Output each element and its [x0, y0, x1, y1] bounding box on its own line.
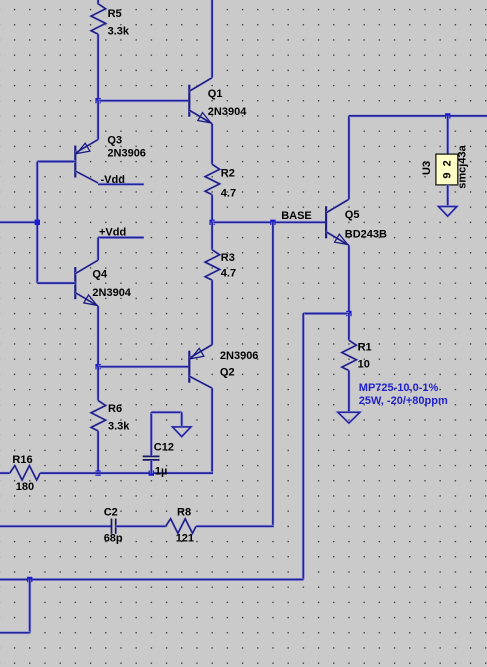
wire bottom left drop — [28, 580, 31, 633]
node junction Q4 emitter / R6 / Q2 base — [95, 364, 100, 369]
node junction left input — [35, 220, 40, 225]
capacitor C12 — [143, 456, 160, 460]
wire node to Q2 base — [98, 365, 189, 368]
wire Q3 emitter lead — [97, 101, 100, 140]
node junction C12 bottom — [149, 470, 154, 475]
wire R1 top lead — [347, 314, 350, 341]
wire U3 bottom lead — [446, 185, 449, 207]
node junction BASE tap — [270, 220, 275, 225]
svg-text:4.7: 4.7 — [221, 267, 236, 279]
wire Q1 emitter to R2 — [211, 124, 214, 165]
wire C12 bend horizontal — [151, 411, 181, 414]
svg-text:3.3k: 3.3k — [108, 26, 130, 38]
svg-text:+Vdd: +Vdd — [99, 227, 126, 239]
resistor R6 — [91, 401, 106, 431]
resistor R5 — [91, 4, 106, 34]
wire top rail to right edge — [349, 114, 487, 117]
svg-text:4.7: 4.7 — [221, 187, 236, 199]
ground arrow at U3 — [439, 207, 457, 217]
resistor R16 — [10, 466, 40, 481]
wire R6 top lead — [97, 367, 100, 401]
wire C12 top lead — [150, 412, 153, 456]
wire C12 arrow stem — [180, 412, 183, 427]
wire Q5 emitter down — [347, 245, 350, 313]
wire Q4 base — [37, 282, 75, 285]
svg-text:25W, -20/+80ppm: 25W, -20/+80ppm — [359, 395, 448, 407]
svg-text:2N3904: 2N3904 — [92, 287, 131, 299]
svg-text:BASE: BASE — [281, 210, 312, 222]
wire Q4 emitter to node — [97, 306, 100, 367]
ground arrow at C12 — [173, 427, 191, 437]
transistor Q5 BD243B — [326, 199, 349, 245]
wire R3 bottom to Q2 emitter — [211, 280, 214, 345]
net flag +Vdd bar — [98, 236, 144, 239]
wire R8 to BASE vertical — [196, 525, 274, 528]
wire R2 bottom to BASE node — [211, 195, 214, 223]
svg-text:3.3k: 3.3k — [108, 421, 130, 433]
net flag -Vdd bar — [98, 183, 144, 186]
wire Q2 collector down — [211, 388, 214, 473]
wire node to Q1 base — [98, 99, 189, 102]
transistor Q2 2N3906 — [189, 345, 212, 389]
transistor Q4 2N3904 — [75, 260, 98, 306]
resistor R3 — [205, 250, 220, 280]
resistor R1 — [342, 340, 357, 370]
wire left input — [0, 221, 37, 224]
svg-text:MP725-10,0-1%: MP725-10,0-1% — [359, 382, 439, 394]
node junction U3 tap — [445, 113, 450, 118]
svg-text:2N3906: 2N3906 — [107, 147, 146, 159]
wire bottom-left lead to R16 — [0, 472, 10, 475]
svg-text:BD243B: BD243B — [345, 228, 387, 240]
wire BASE vertical down — [271, 222, 274, 526]
ground arrow at R1 — [338, 412, 360, 423]
wire C2 to R8 — [116, 525, 166, 528]
svg-text:1µ: 1µ — [155, 466, 167, 478]
wire R3 top lead — [211, 222, 214, 250]
wire Q3 base — [37, 160, 75, 163]
resistor R2 — [205, 164, 220, 194]
svg-text:68p: 68p — [104, 532, 123, 544]
svg-text:R1: R1 — [358, 341, 372, 353]
svg-text:R2: R2 — [221, 167, 235, 179]
wire R5 top lead — [97, 0, 100, 4]
wire R1 bottom lead — [347, 371, 350, 413]
svg-text:180: 180 — [16, 481, 34, 493]
wire bottom horizontal — [0, 578, 303, 581]
svg-text:R3: R3 — [221, 252, 235, 264]
transistor Q3 2N3906 — [75, 140, 98, 184]
wire R5 bottom to node — [97, 34, 100, 101]
svg-text:Q1: Q1 — [208, 88, 223, 100]
transistor Q1 2N3904 — [189, 78, 212, 124]
node junction bottom left — [27, 577, 32, 582]
svg-text:R16: R16 — [12, 454, 32, 466]
wire emitter node left — [303, 312, 349, 315]
svg-text:Q2: Q2 — [220, 367, 235, 379]
svg-text:U3: U3 — [421, 161, 433, 175]
svg-text:C12: C12 — [154, 442, 174, 454]
svg-text:R8: R8 — [177, 506, 191, 518]
resistor R8 — [166, 519, 196, 534]
svg-text:smcj43a: smcj43a — [457, 144, 469, 188]
wire R16 to Q2 collector corner — [40, 472, 213, 475]
svg-text:R5: R5 — [108, 8, 122, 20]
svg-text:Q5: Q5 — [345, 209, 360, 221]
node junction R5 / Q1 base / Q3 emitter — [95, 98, 100, 103]
svg-text:Q4: Q4 — [92, 269, 108, 281]
wire C12 bottom lead — [150, 460, 153, 473]
svg-text:-Vdd: -Vdd — [101, 174, 125, 186]
node junction R6 bottom — [95, 470, 100, 475]
node junction R2 / R3 / BASE — [209, 220, 214, 225]
wire Q1 collector up — [211, 0, 214, 78]
wire long vertical x303 — [302, 314, 305, 580]
svg-text:10: 10 — [358, 359, 370, 371]
svg-text:2N3906: 2N3906 — [220, 350, 259, 362]
node junction Q5 emitter / R1 — [346, 311, 351, 316]
wire U3 top lead — [446, 116, 449, 154]
svg-text:C2: C2 — [104, 506, 118, 518]
wire +Vdd drop to Q4 collector — [97, 238, 100, 261]
svg-text:2N3904: 2N3904 — [208, 106, 247, 118]
wire Q5 collector up — [347, 116, 350, 199]
svg-text:9 2: 9 2 — [442, 160, 454, 178]
svg-text:R6: R6 — [108, 403, 122, 415]
wire R6 bottom lead — [97, 431, 100, 473]
diode U3 smcj43a body — [436, 154, 458, 185]
wire BASE net — [212, 221, 326, 224]
wire left vertical between Q3 and Q4 bases — [36, 162, 39, 284]
wire bottom exit left — [0, 631, 30, 634]
svg-text:121: 121 — [176, 532, 194, 544]
wire feedback bottom left — [0, 525, 112, 528]
capacitor C2 — [112, 519, 116, 534]
svg-text:Q3: Q3 — [107, 134, 122, 146]
